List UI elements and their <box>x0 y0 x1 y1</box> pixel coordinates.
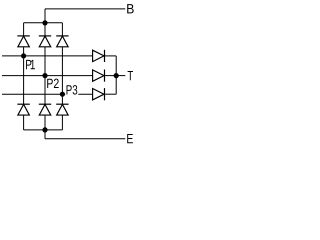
label P3 <box>66 85 77 95</box>
node P3 junction <box>60 92 65 97</box>
diode D2 (upper, phase 2) <box>39 36 51 47</box>
junction lower rail to E <box>42 127 47 132</box>
diode D9 (trio, phase 3) <box>93 88 105 100</box>
label E <box>127 134 133 143</box>
label P2 <box>47 79 58 88</box>
label P1 <box>26 60 35 69</box>
label T <box>128 71 133 80</box>
label P3 halo <box>65 84 78 95</box>
diode D8 (trio, phase 2) <box>93 70 105 82</box>
diode D1 (upper, phase 1) <box>17 36 29 47</box>
wire trio cathode bus <box>115 56 117 94</box>
diode D5 (lower, phase 2) <box>39 104 51 115</box>
diode D4 (lower, phase 1) <box>17 104 29 115</box>
wire column 3 upper segment <box>61 23 63 36</box>
wire stub from B rail down to top rail <box>44 9 46 23</box>
wire trio row 3 to bus <box>105 93 117 95</box>
wire B rail <box>45 8 125 10</box>
wire column 3 lower segment <box>61 115 63 130</box>
wire column 1 lower segment <box>23 115 25 130</box>
diode D3 (upper, phase 3) <box>56 36 68 47</box>
wire phase rail P1 <box>2 55 92 57</box>
wire phase rail P3 <box>2 93 92 95</box>
wire lower rail joining lower diode anodes <box>24 129 63 131</box>
wire column 2 upper segment <box>44 23 46 36</box>
wire column 3 middle segment <box>61 47 63 104</box>
wire column 2 lower segment down to E rail <box>44 115 46 139</box>
wire phase rail P2 <box>2 75 92 77</box>
wire column 1 upper segment <box>23 23 25 36</box>
diode D7 (trio, phase 1) <box>93 50 105 62</box>
wire trio row 2 to bus <box>105 75 117 77</box>
node T junction <box>114 73 119 78</box>
junction top (B to upper rail) <box>42 20 47 25</box>
node P1 junction <box>21 53 26 58</box>
diode D6 (lower, phase 3) <box>56 104 68 115</box>
wire top rail joining upper diode cathodes <box>24 22 63 24</box>
wire column 1 middle segment <box>23 47 25 104</box>
wire trio row 1 to bus <box>105 55 117 57</box>
wire column 2 middle segment <box>44 47 46 104</box>
label B <box>127 4 133 13</box>
node P2 junction <box>42 73 47 78</box>
wire E rail <box>45 138 125 140</box>
wire T lead <box>116 75 125 77</box>
